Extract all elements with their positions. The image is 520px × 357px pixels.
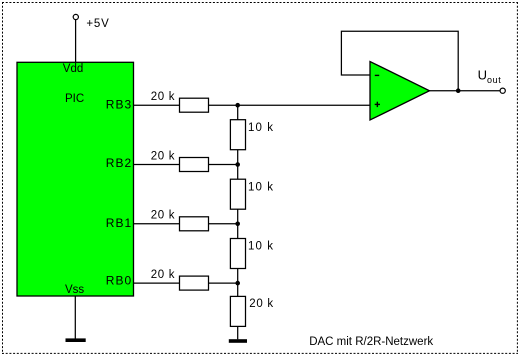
svg-text:20 k: 20 k — [151, 210, 176, 222]
resistor 10 k (middle) — [230, 179, 245, 209]
wire Vss to ground — [74, 296, 76, 339]
wire feedback loop — [341, 31, 458, 90]
svg-text:RB2: RB2 — [106, 156, 132, 170]
ground (Vss) — [66, 338, 86, 342]
svg-text:20 k: 20 k — [151, 269, 176, 281]
svg-text:+5V: +5V — [86, 18, 109, 30]
node feedback / output junction — [456, 88, 461, 93]
wire RB2 pin — [134, 164, 180, 166]
wire ladder segment to RB0 node — [237, 269, 239, 297]
svg-text:20 k: 20 k — [151, 91, 176, 103]
wire RB2 resistor to ladder — [209, 164, 238, 166]
wire op-amp output — [430, 90, 501, 92]
svg-text:PIC: PIC — [65, 93, 84, 105]
resistor 10 k (top) — [230, 120, 245, 150]
wire ladder segment RB3 to R 10k — [237, 105, 239, 120]
node RB1 / ladder junction — [235, 222, 240, 227]
wire RB0 pin — [134, 282, 180, 284]
wire RB3 pin — [134, 104, 180, 106]
terminal Uout — [500, 88, 505, 93]
node RB2 / ladder junction — [235, 162, 240, 167]
node RB0 / ladder junction — [235, 281, 240, 286]
svg-text:20 k: 20 k — [151, 150, 176, 162]
node RB3 / ladder junction — [235, 103, 240, 108]
resistor 20k (RB3 branch) — [180, 98, 209, 112]
wire +5V to Vdd — [75, 20, 77, 63]
resistor 20k (RB2 branch) — [180, 158, 209, 172]
resistor 10 k (bottom) — [230, 239, 245, 269]
svg-text:10 k: 10 k — [248, 122, 274, 134]
svg-text:10 k: 10 k — [248, 241, 274, 253]
wire RB0 resistor to ladder — [209, 282, 238, 284]
wire RB3 resistor to op-amp + input — [209, 104, 371, 106]
svg-text:RB0: RB0 — [106, 274, 132, 288]
svg-text:20 k: 20 k — [249, 298, 274, 310]
resistor 20k (RB0 branch) — [180, 276, 209, 290]
wire RB1 pin — [134, 223, 180, 225]
op-amp — [370, 62, 430, 121]
svg-text:Vdd: Vdd — [63, 63, 83, 75]
wire ladder segment to RB1 node — [237, 209, 239, 238]
resistor 20 k (ladder terminator) — [230, 296, 245, 326]
wire ladder to ground — [237, 326, 239, 339]
wire RB1 resistor to ladder — [209, 223, 238, 225]
svg-text:DAC mit R/2R-Netzwerk: DAC mit R/2R-Netzwerk — [309, 336, 433, 348]
svg-text:10 k: 10 k — [248, 181, 274, 193]
PIC microcontroller — [17, 62, 134, 296]
svg-text:RB3: RB3 — [106, 98, 132, 112]
ground (ladder) — [229, 339, 247, 343]
wire ladder segment to RB2 node — [237, 150, 239, 180]
resistor 20k (RB1 branch) — [180, 217, 209, 231]
svg-text:Vss: Vss — [65, 284, 84, 296]
svg-text:RB1: RB1 — [106, 216, 132, 230]
terminal +5V — [73, 14, 78, 19]
